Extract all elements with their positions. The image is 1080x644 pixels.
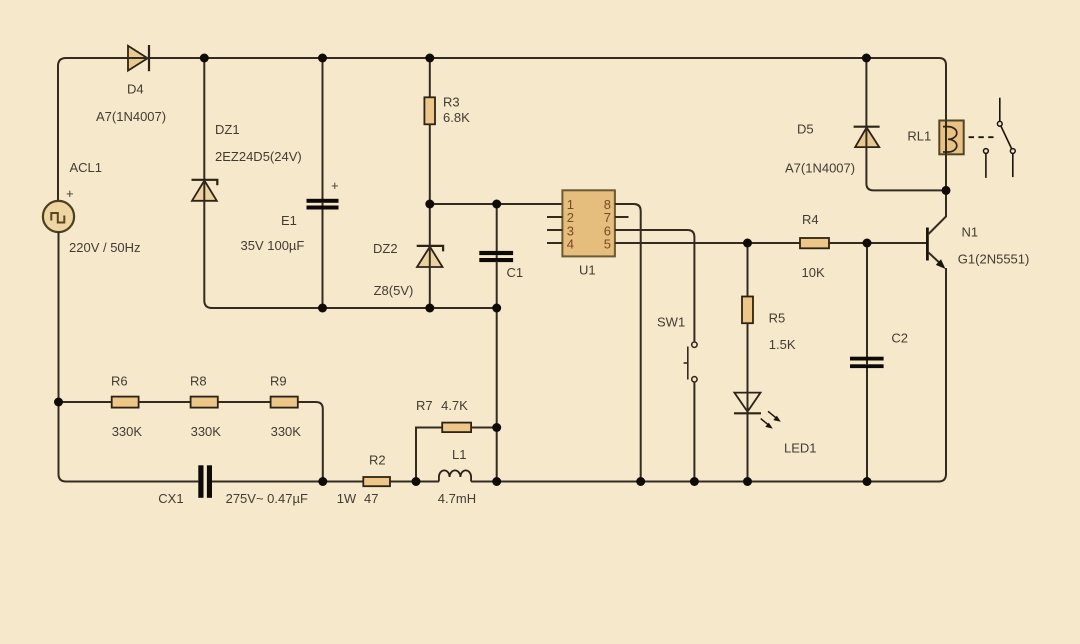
node top rail E1	[318, 54, 327, 63]
svg-text:C1: C1	[507, 265, 524, 280]
wire RL1 to collector node	[945, 154, 947, 190]
svg-text:10K: 10K	[802, 265, 825, 280]
svg-text:G1(2N5551): G1(2N5551)	[958, 251, 1030, 266]
node R6 row left	[54, 398, 63, 407]
svg-text:C2: C2	[891, 331, 908, 346]
svg-text:+: +	[331, 178, 339, 193]
node row C1	[492, 200, 501, 209]
wire R6 to R8	[139, 401, 191, 403]
node top rail D5	[862, 54, 871, 63]
node bottom rail C1	[492, 477, 501, 486]
node top rail DZ1	[200, 54, 209, 63]
wire top rail left segment	[58, 58, 128, 66]
wire E1 gap segment	[322, 203, 324, 206]
wire U1 pin5 / base row y=243	[615, 242, 926, 244]
svg-text:330K: 330K	[112, 424, 143, 439]
svg-text:L1: L1	[452, 447, 466, 462]
svg-text:R7: R7	[416, 398, 433, 413]
wire U1 pin4 stub	[547, 242, 562, 244]
capacitor E1	[307, 199, 339, 210]
svg-text:2EZ24D5(24V): 2EZ24D5(24V)	[215, 149, 302, 164]
wire R7 right to C1 line	[471, 427, 497, 429]
svg-text:6.8K: 6.8K	[443, 110, 470, 125]
wire D5 bottom to collector node	[866, 147, 946, 190]
resistor R8	[191, 397, 218, 408]
wire top rail right segment	[149, 58, 946, 121]
wire left vertical lower	[59, 232, 67, 482]
wire E1 branch upper	[322, 58, 324, 200]
svg-text:DZ2: DZ2	[373, 241, 398, 256]
svg-text:330K: 330K	[191, 424, 222, 439]
svg-text:A7(1N4007): A7(1N4007)	[785, 160, 855, 175]
source ACL1	[43, 201, 74, 232]
node row R3	[425, 200, 434, 209]
node mid rail DZ2	[425, 304, 434, 313]
svg-text:1W: 1W	[337, 491, 357, 506]
svg-text:CX1: CX1	[158, 491, 183, 506]
svg-text:R2: R2	[369, 453, 386, 468]
wire D5 branch upper	[865, 58, 867, 127]
svg-text:A7(1N4007): A7(1N4007)	[96, 109, 166, 124]
wire middle rail y=308	[212, 307, 497, 309]
wire C2 gap segment	[866, 361, 868, 365]
wire U1 pin3 stub	[547, 229, 562, 231]
resistor R4	[800, 238, 829, 248]
capacitor C1	[479, 251, 513, 262]
svg-text:R8: R8	[190, 374, 207, 389]
inductor L1	[439, 470, 471, 481]
resistor R2	[363, 477, 390, 486]
wire LED1 to bottom rail	[747, 413, 749, 481]
wire bottom rail left of CX1	[66, 481, 198, 483]
node base row C2	[863, 239, 872, 248]
LED LED1	[734, 393, 781, 429]
relay contact blade	[1001, 126, 1012, 149]
svg-text:35V 100µF: 35V 100µF	[241, 238, 305, 253]
wire U1 pin2 stub	[547, 216, 562, 218]
wire R3 branch upper	[429, 58, 431, 97]
node bottom rail R9	[318, 477, 327, 486]
wire C1 branch upper	[496, 204, 498, 251]
svg-text:N1: N1	[962, 224, 979, 239]
wire E1 branch lower	[322, 209, 324, 308]
wire R3 to DZ2	[429, 124, 431, 246]
wire DZ1 branch upper	[203, 58, 205, 180]
wire C1 gap segment	[496, 255, 498, 258]
wire R5 to LED1	[747, 323, 749, 392]
wire bottom rail CX1 to L1	[212, 481, 439, 483]
svg-text:+: +	[66, 186, 74, 201]
relay contact right terminal	[1010, 149, 1015, 178]
wire bottom rail L1 to right corner	[471, 481, 938, 483]
svg-text:DZ1: DZ1	[215, 122, 240, 137]
node bottom rail R7	[412, 477, 421, 486]
svg-text:E1: E1	[281, 213, 297, 228]
node collector D5	[942, 186, 951, 195]
wire DZ2 lower	[429, 267, 431, 308]
svg-text:4.7mH: 4.7mH	[438, 491, 476, 506]
wire R9 down to bottom rail	[298, 402, 323, 482]
wire left vertical upper	[57, 66, 59, 201]
zener diode DZ2	[417, 246, 443, 267]
node mid rail E1	[318, 304, 327, 313]
svg-text:220V / 50Hz: 220V / 50Hz	[69, 240, 141, 255]
svg-text:4: 4	[567, 236, 574, 251]
resistor R6	[112, 397, 139, 408]
node bottom rail pin8	[636, 477, 645, 486]
svg-text:275V~ 0.47µF: 275V~ 0.47µF	[226, 491, 308, 506]
wire U1 pin7 stub	[615, 216, 629, 218]
diode D4	[128, 45, 149, 71]
svg-text:1.5K: 1.5K	[769, 337, 796, 352]
resistor R7	[442, 423, 471, 433]
svg-text:ACL1: ACL1	[70, 160, 103, 175]
svg-text:330K: 330K	[271, 424, 302, 439]
transistor N1	[927, 190, 946, 269]
svg-text:R4: R4	[802, 212, 819, 227]
svg-text:D5: D5	[797, 122, 814, 137]
wire R5 branch upper	[747, 243, 749, 297]
wire U1 pin6 to SW1	[615, 230, 695, 342]
node top rail R3	[425, 54, 434, 63]
svg-text:D4: D4	[127, 82, 144, 97]
resistor R3	[424, 97, 435, 124]
resistor R5	[742, 297, 753, 324]
svg-text:R6: R6	[111, 374, 128, 389]
svg-text:Z8(5V): Z8(5V)	[374, 283, 414, 298]
capacitor C2	[850, 357, 884, 368]
wire R6 row left	[59, 401, 112, 403]
svg-text:R5: R5	[769, 311, 786, 326]
zener diode DZ1	[192, 180, 218, 201]
svg-text:R9: R9	[270, 374, 287, 389]
wire R8 to R9	[218, 401, 271, 403]
relay contact left terminal	[984, 149, 989, 178]
capacitor CX1	[198, 465, 212, 498]
node bottom rail SW1	[690, 477, 699, 486]
wire C2 branch lower	[866, 368, 868, 482]
svg-text:5: 5	[604, 236, 611, 251]
switch SW1	[684, 342, 698, 382]
wire emitter to bottom rail	[939, 268, 947, 482]
wire SW1 to bottom rail	[693, 382, 695, 482]
svg-text:U1: U1	[579, 263, 596, 278]
svg-text:RL1: RL1	[907, 128, 931, 143]
wire R7 branch left	[416, 428, 442, 482]
relay contact dashed link	[969, 136, 994, 138]
node R7 right	[492, 423, 501, 432]
node base row R5	[743, 239, 752, 248]
svg-text:SW1: SW1	[657, 315, 685, 330]
wire DZ1 branch lower	[204, 201, 212, 308]
diode D5	[854, 127, 880, 147]
svg-text:47: 47	[364, 491, 378, 506]
wire node row y=204	[430, 203, 563, 205]
svg-text:LED1: LED1	[784, 441, 817, 456]
resistor R9	[271, 397, 298, 408]
wire C2 branch upper	[866, 243, 868, 357]
relay RL1	[939, 121, 963, 155]
wire C1 branch lower long	[496, 261, 498, 481]
node bottom rail C2	[863, 477, 872, 486]
node mid rail C1	[492, 304, 501, 313]
relay contact pole	[997, 98, 1002, 127]
wire U1 pin8 down to bottom rail	[615, 204, 641, 482]
svg-text:R3: R3	[443, 95, 460, 110]
node bottom rail LED1	[743, 477, 752, 486]
IC U1	[562, 190, 615, 256]
svg-text:4.7K: 4.7K	[441, 398, 468, 413]
